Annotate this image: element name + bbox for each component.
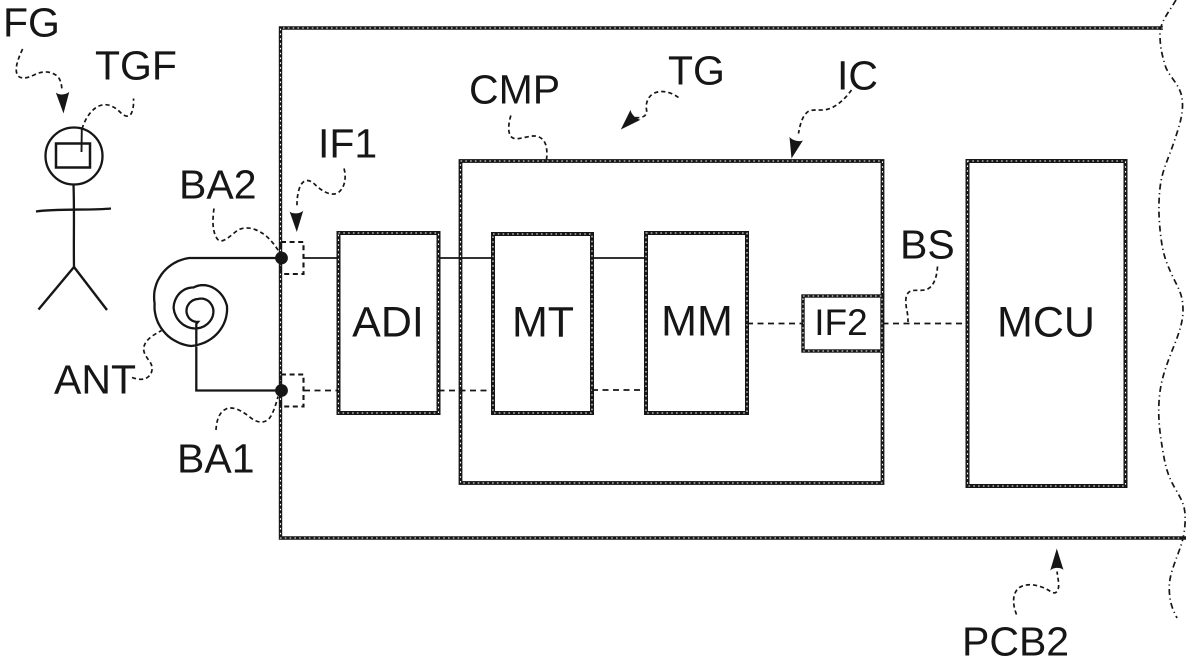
svg-text:ADI: ADI <box>352 299 424 347</box>
svg-text:MT: MT <box>512 299 574 347</box>
leader BA1 (squiggle) <box>216 397 278 431</box>
arrowhead FG <box>56 92 70 114</box>
svg-text:TGF: TGF <box>95 43 177 89</box>
arrowhead PCB2 <box>1050 549 1063 571</box>
IC box <box>461 161 883 483</box>
person FG: body <box>72 185 75 268</box>
person FG: right leg <box>74 267 107 310</box>
svg-text:BA2: BA2 <box>179 162 257 208</box>
svg-text:MM: MM <box>661 298 733 346</box>
leader PCB2 (squiggle + arrow) <box>1014 572 1059 615</box>
leader TG (squiggle + arrow) <box>628 92 679 118</box>
leader ANT (squiggle) <box>132 331 162 380</box>
node BA1 junction dot <box>275 384 288 397</box>
svg-text:BA1: BA1 <box>177 436 255 482</box>
torn edge wavy line <box>1159 0 1185 618</box>
node BA2 junction dot <box>275 252 288 265</box>
wire MT to MM (dashed) <box>592 389 646 391</box>
block MM <box>646 233 747 413</box>
svg-text:BS: BS <box>900 222 955 268</box>
block MT <box>493 234 592 413</box>
leader CMP (squiggle) <box>509 116 547 161</box>
svg-text:IF2: IF2 <box>814 302 867 343</box>
person FG: head <box>46 128 103 185</box>
svg-text:MCU: MCU <box>997 299 1095 347</box>
wire ADI to MT (dashed) <box>439 390 494 392</box>
block MCU <box>968 161 1126 486</box>
svg-text:ANT: ANT <box>54 357 136 403</box>
wire ADI to MT (solid) <box>439 257 494 259</box>
leader BS (squiggle) <box>906 267 938 323</box>
leader FG (squiggle + arrow) <box>16 49 62 90</box>
block ADI <box>339 233 439 413</box>
svg-text:TG: TG <box>668 48 725 94</box>
block IF2 <box>803 296 882 351</box>
leader TGF (squiggle) <box>82 99 134 130</box>
person FG: arms <box>36 209 111 212</box>
wire MT to MM (solid) <box>592 257 646 259</box>
leader IC (squiggle + arrow) <box>799 90 852 134</box>
arrowhead TG <box>621 110 641 130</box>
PCB2 board outline (open right side, torn) <box>281 28 1187 538</box>
person FG: leader stub from head top into device <box>81 129 83 153</box>
svg-text:PCB2: PCB2 <box>962 619 1069 658</box>
arrowhead IF1 <box>290 211 304 232</box>
connector pad BA2 (dashed square) <box>281 242 304 274</box>
wire BA1 to ADI (dashed) <box>304 390 339 392</box>
leader BA2 (squiggle) <box>213 209 281 256</box>
svg-text:IC: IC <box>837 53 878 99</box>
svg-text:IF1: IF1 <box>318 121 377 167</box>
person FG: left leg <box>39 267 75 310</box>
wire MM to IF2 (dashed) <box>747 323 803 325</box>
arrowhead IC <box>790 137 803 159</box>
PCB2 board outline bead overlay <box>281 28 1187 538</box>
leader IF1 (squiggle + arrow) <box>297 169 345 209</box>
svg-text:CMP: CMP <box>469 67 560 113</box>
svg-text:FG: FG <box>3 0 60 46</box>
connector pad BA1 (dashed square) <box>281 375 304 407</box>
person FG: device TGF rectangle in head <box>56 144 90 168</box>
antenna ANT coil and wires <box>154 258 281 391</box>
wire IC to MCU bus BS (dashed) <box>883 323 968 325</box>
wire BA2 to ADI (solid) <box>304 257 339 259</box>
